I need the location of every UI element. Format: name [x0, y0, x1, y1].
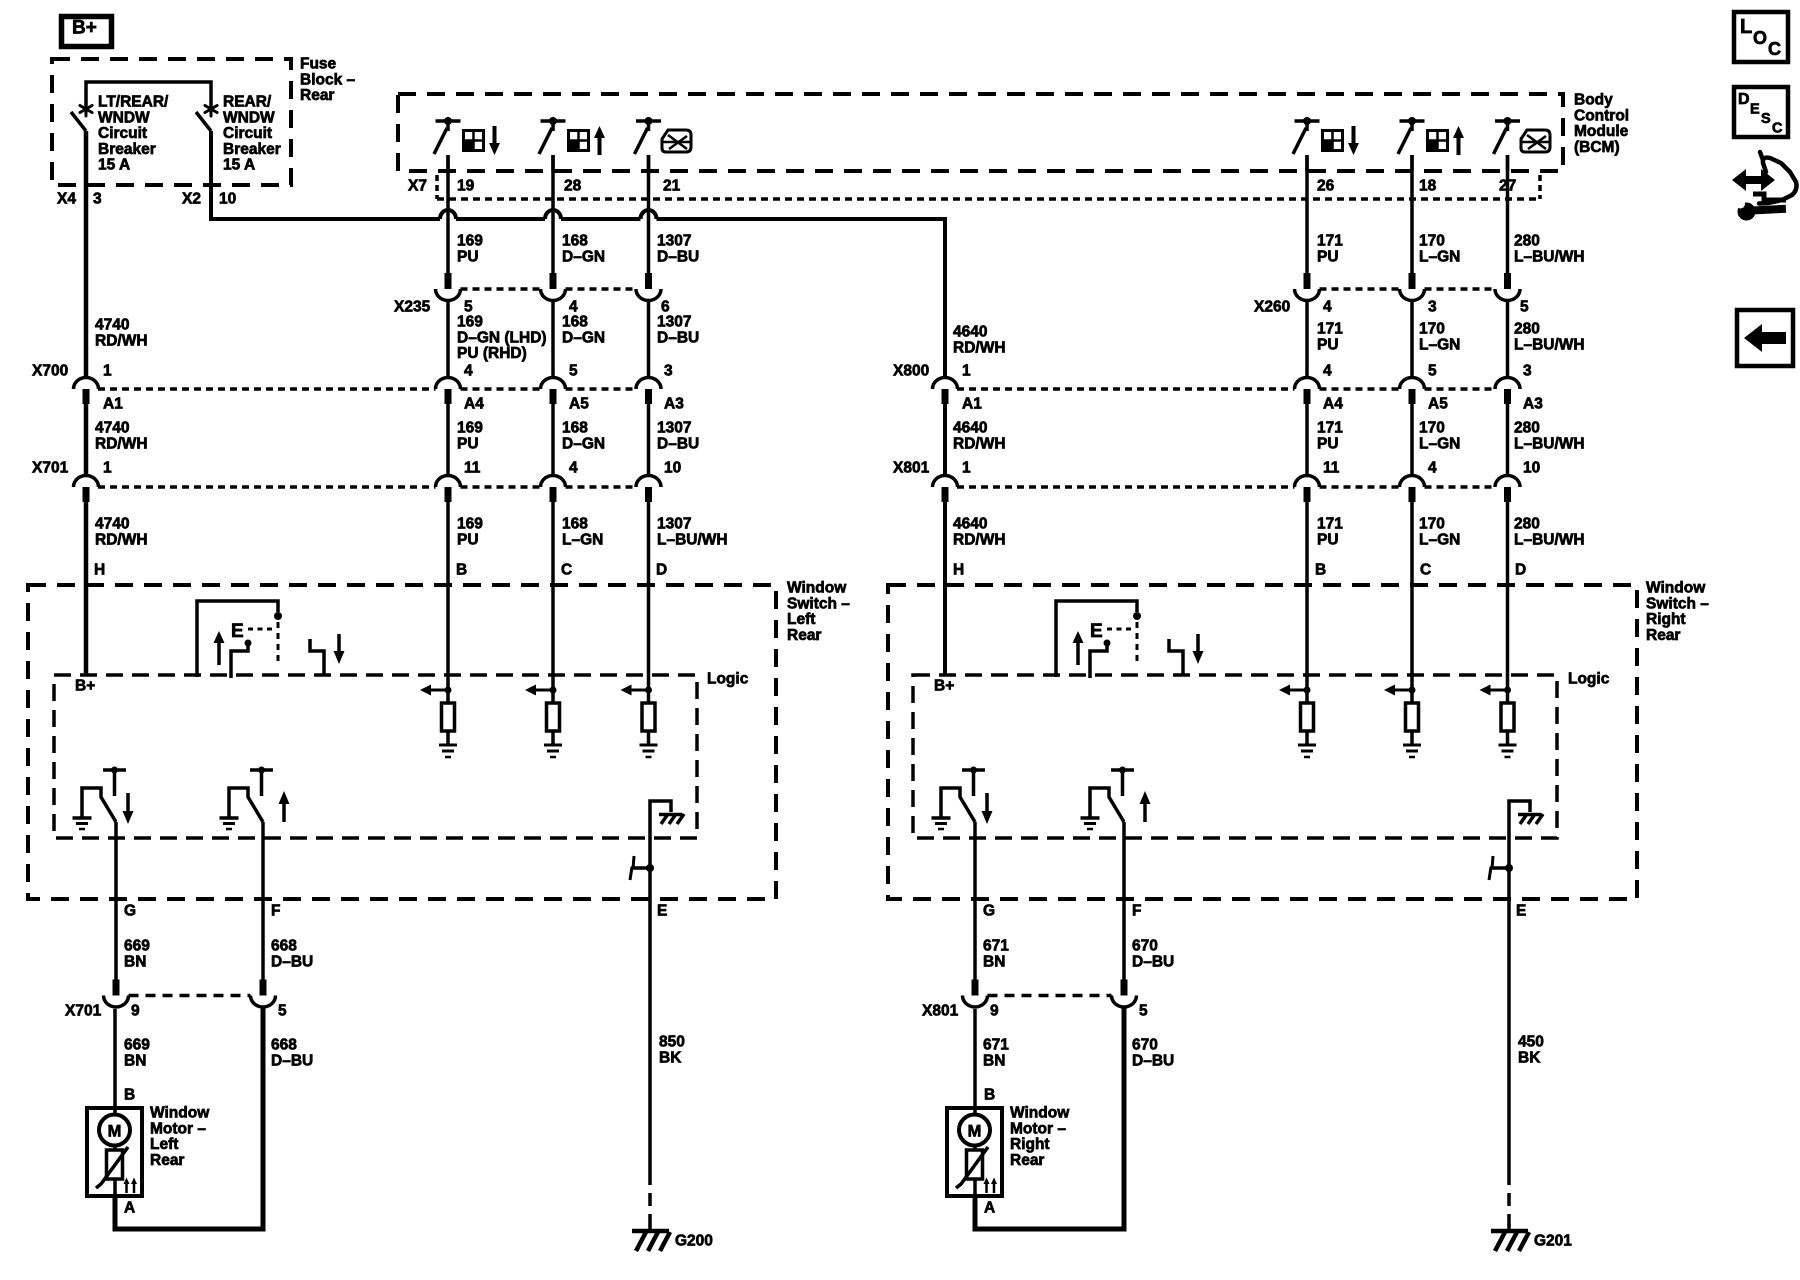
wire C right 170 X800 to X801: [1410, 404, 1414, 476]
connector X800 pin 3: [1495, 378, 1520, 390]
svg-text:E: E: [657, 903, 667, 920]
svg-text:A: A: [984, 1200, 995, 1217]
svg-text:BK: BK: [1518, 1049, 1541, 1066]
svg-text:G: G: [124, 903, 136, 920]
svg-text:15 A: 15 A: [98, 157, 130, 174]
svg-text:170: 170: [1419, 420, 1445, 437]
connector X701 pin 9: [113, 980, 120, 996]
svg-text:A4: A4: [1323, 396, 1343, 413]
svg-text:X260: X260: [1254, 299, 1290, 316]
svg-text:PU: PU: [1317, 336, 1339, 353]
svg-text:Window: Window: [787, 580, 847, 597]
logic box right: [913, 675, 1557, 838]
BCM box: Body Control Module: [398, 94, 1563, 171]
svg-text:169: 169: [457, 314, 483, 331]
svg-text:E: E: [1090, 621, 1103, 642]
svg-text:169: 169: [457, 516, 483, 533]
svg-text:5: 5: [1520, 299, 1529, 316]
wire C right 170 X801 to switch box: [1410, 502, 1414, 675]
svg-text:28: 28: [564, 178, 582, 195]
connector X800 pin 5: [1400, 378, 1425, 390]
svg-text:PU: PU: [1317, 248, 1339, 265]
wire H left (4740 RD/WH) breaker to X700: [84, 131, 89, 378]
svg-text:M: M: [968, 1123, 982, 1141]
svg-text:3: 3: [1523, 363, 1532, 380]
svg-text:PU: PU: [457, 248, 479, 265]
svg-text:19: 19: [457, 178, 475, 195]
svg-text:Rear: Rear: [787, 627, 821, 644]
svg-text:D–GN: D–GN: [562, 329, 605, 346]
svg-text:670: 670: [1132, 938, 1158, 955]
svg-text:PU: PU: [1317, 531, 1339, 548]
svg-text:670: 670: [1132, 1037, 1158, 1054]
svg-text:B+: B+: [75, 678, 95, 695]
resistor R5 w/ ground (right C): [1410, 675, 1414, 703]
wire D left 1307 X700 to X701: [647, 404, 651, 476]
svg-text:171: 171: [1317, 233, 1343, 250]
connector X800 pin 1: [933, 378, 958, 390]
svg-text:L–BU/WH: L–BU/WH: [1514, 336, 1585, 353]
BCM switch S1 window down left: [436, 119, 461, 123]
svg-text:PU: PU: [1317, 435, 1339, 452]
svg-text:Rear: Rear: [150, 1152, 184, 1169]
ground hook E left: [650, 801, 671, 838]
svg-text:B+: B+: [72, 18, 97, 39]
svg-text:Circuit: Circuit: [98, 125, 147, 142]
svg-text:F: F: [1132, 903, 1141, 920]
wire H right (4640 RD/WH) X800 to X801: [943, 404, 947, 476]
svg-text:280: 280: [1514, 516, 1540, 533]
wire E right inside box: [1507, 838, 1511, 899]
svg-text:18: 18: [1419, 178, 1437, 195]
wire G left 669 BN: [114, 822, 118, 980]
svg-text:169: 169: [457, 420, 483, 437]
connector X235 pin 5: [445, 273, 452, 289]
svg-text:10: 10: [219, 191, 236, 208]
svg-text:Left: Left: [787, 611, 815, 628]
svg-text:Rear: Rear: [300, 87, 334, 104]
svg-text:A5: A5: [569, 396, 589, 413]
circuit breaker CB2 REAR/WNDW 15 A: [210, 102, 213, 116]
svg-text:668: 668: [271, 938, 297, 955]
svg-text:280: 280: [1514, 321, 1540, 338]
svg-text:170: 170: [1419, 516, 1445, 533]
svg-text:850: 850: [659, 1034, 685, 1051]
wire B right 171 PU X801 to switch box: [1305, 502, 1309, 675]
svg-text:1: 1: [962, 363, 971, 380]
svg-text:Circuit: Circuit: [223, 125, 272, 142]
svg-text:RD/WH: RD/WH: [953, 339, 1006, 356]
svg-text:D–BU: D–BU: [657, 329, 699, 346]
svg-text:L–BU/WH: L–BU/WH: [657, 531, 728, 548]
connector X260 pin 4: [1304, 273, 1311, 289]
connector X801 pin 4: [1400, 476, 1425, 487]
svg-text:4640: 4640: [953, 516, 987, 533]
wire B right 171 PU X800 to X801: [1305, 404, 1309, 476]
svg-text:PU: PU: [457, 531, 479, 548]
svg-text:L–BU/WH: L–BU/WH: [1514, 435, 1585, 452]
svg-text:H: H: [94, 562, 105, 579]
icon LOC box: [1734, 12, 1788, 62]
svg-text:280: 280: [1514, 420, 1540, 437]
svg-text:D–GN: D–GN: [562, 435, 605, 452]
switch up left (F): [250, 768, 273, 772]
connector X801 bridge dashes: [957, 485, 1295, 489]
wire C left 168 X700 to X701: [551, 404, 555, 476]
svg-text:C: C: [1420, 562, 1431, 579]
svg-text:B: B: [456, 562, 467, 579]
wire B right 171 PU BCM to X260: [1305, 155, 1309, 273]
svg-text:4: 4: [1323, 363, 1332, 380]
connector X801 pin 10: [1495, 476, 1520, 487]
icon express-window right: [1521, 130, 1550, 152]
svg-text:170: 170: [1419, 233, 1445, 250]
svg-text:171: 171: [1317, 420, 1343, 437]
svg-text:X4: X4: [57, 191, 76, 208]
connector X801 pin 5: [1121, 980, 1128, 996]
svg-text:L–BU/WH: L–BU/WH: [1514, 531, 1585, 548]
svg-text:E: E: [1516, 903, 1526, 920]
svg-text:168: 168: [562, 420, 588, 437]
svg-text:15 A: 15 A: [223, 157, 255, 174]
wire motor loop right (A to X801-5): [975, 1008, 1124, 1229]
svg-text:BN: BN: [124, 1052, 146, 1069]
svg-text:Breaker: Breaker: [98, 141, 156, 158]
svg-text:1: 1: [962, 460, 971, 477]
svg-text:L–GN: L–GN: [562, 531, 603, 548]
svg-text:L–GN: L–GN: [1419, 531, 1460, 548]
BCM switch S5 window up right: [1400, 119, 1425, 123]
wire D left 1307 X701 to switch box: [647, 502, 651, 675]
connector X700 pin 5: [541, 378, 566, 390]
svg-text:A5: A5: [1428, 396, 1448, 413]
wire D right 280 BCM to X260: [1506, 155, 1510, 273]
svg-text:WNDW: WNDW: [223, 109, 275, 126]
svg-text:E: E: [1750, 102, 1760, 118]
window switch right rear box: [888, 585, 1637, 899]
svg-text:D–BU: D–BU: [657, 248, 699, 265]
BCM switch S3 express left: [636, 119, 661, 123]
svg-text:BN: BN: [983, 1052, 1005, 1069]
window switch left rear box: [28, 585, 776, 899]
wire D right 280 X801 to switch box: [1506, 502, 1510, 675]
svg-text:Switch –: Switch –: [1646, 595, 1709, 612]
svg-text:BN: BN: [124, 953, 146, 970]
svg-text:RD/WH: RD/WH: [953, 435, 1006, 452]
svg-text:BN: BN: [983, 953, 1005, 970]
svg-text:671: 671: [983, 1037, 1009, 1054]
wire E right 450 BK solid: [1507, 899, 1511, 1172]
svg-text:A3: A3: [664, 396, 684, 413]
resistor R3 w/ ground (left D): [647, 675, 651, 703]
wire D left 1307 BCM to X235: [647, 155, 651, 273]
wire E right dashed to G201: [1507, 1172, 1511, 1226]
wire E left dashed to G200: [648, 1172, 652, 1226]
window motor right rear M2: [947, 1108, 1002, 1196]
wire motor loop left (A to X701-5): [115, 1008, 263, 1229]
svg-text:Rear: Rear: [1010, 1152, 1044, 1169]
wire E left inside box: [648, 838, 652, 899]
relay E assembly right: [1056, 601, 1137, 677]
svg-text:4740: 4740: [95, 420, 129, 437]
logic box left: [54, 675, 697, 838]
svg-text:L–GN: L–GN: [1419, 435, 1460, 452]
svg-text:S: S: [1761, 111, 1771, 127]
svg-text:Right: Right: [1010, 1136, 1050, 1153]
svg-text:5: 5: [278, 1003, 287, 1020]
wire H left X701 to switch box: [84, 502, 89, 675]
window motor left rear M1: [87, 1108, 142, 1196]
svg-text:9: 9: [131, 1003, 140, 1020]
wire B right 171 PU X260 to X800: [1305, 301, 1309, 378]
svg-text:170: 170: [1419, 321, 1445, 338]
svg-text:4640: 4640: [953, 324, 987, 341]
connector X701 pin 10: [636, 476, 661, 487]
svg-text:D: D: [1738, 91, 1750, 108]
svg-text:X701: X701: [32, 460, 69, 477]
ground hook E right: [1509, 801, 1530, 838]
wire C right 170 X260 to X800: [1410, 301, 1414, 378]
icon window-down right: [1323, 131, 1343, 151]
svg-text:L–BU/WH: L–BU/WH: [1514, 248, 1585, 265]
svg-text:Breaker: Breaker: [223, 141, 281, 158]
svg-text:171: 171: [1317, 516, 1343, 533]
fuse block box: Fuse Block - Rear: [52, 59, 291, 185]
resistor R2 w/ ground (left C): [551, 675, 555, 703]
wire D left 1307 X235 to X700: [647, 301, 651, 378]
connector X701 pin 4: [541, 476, 566, 487]
svg-text:Left: Left: [150, 1136, 178, 1153]
ground G201: [1507, 1225, 1511, 1233]
svg-text:G: G: [983, 903, 995, 920]
svg-text:Switch –: Switch –: [787, 595, 850, 612]
wire B left 169 PU BCM to X235: [446, 155, 450, 273]
svg-text:10: 10: [664, 460, 681, 477]
svg-text:X801: X801: [922, 1003, 959, 1020]
wire F right 670 D-BU: [1122, 822, 1126, 980]
clip splice E left: [631, 866, 652, 870]
svg-text:L–GN: L–GN: [1419, 248, 1460, 265]
svg-text:A1: A1: [103, 396, 123, 413]
icon DESC box: [1734, 87, 1788, 137]
svg-text:669: 669: [124, 1037, 150, 1054]
svg-text:4740: 4740: [95, 317, 129, 334]
svg-text:WNDW: WNDW: [98, 109, 150, 126]
svg-text:280: 280: [1514, 233, 1540, 250]
svg-text:1: 1: [103, 460, 112, 477]
svg-text:11: 11: [464, 460, 481, 477]
svg-text:RD/WH: RD/WH: [95, 435, 148, 452]
wire C left 168 X701 to switch box: [551, 502, 555, 675]
svg-text:4640: 4640: [953, 420, 987, 437]
connector X7 row: [435, 175, 439, 199]
clip splice E right: [1490, 866, 1511, 870]
svg-text:Logic: Logic: [707, 671, 749, 688]
svg-text:1307: 1307: [657, 420, 691, 437]
svg-text:C: C: [561, 562, 572, 579]
svg-text:D–BU: D–BU: [657, 435, 699, 452]
svg-text:C: C: [1772, 121, 1783, 137]
svg-text:Body: Body: [1574, 92, 1613, 109]
connector X701 bottom bridge dashes: [129, 994, 251, 998]
svg-text:Rear: Rear: [1646, 627, 1680, 644]
connector X701 bridge dashes: [98, 485, 436, 489]
svg-text:PU: PU: [457, 435, 479, 452]
svg-text:168: 168: [562, 233, 588, 250]
svg-text:D–GN (LHD): D–GN (LHD): [457, 329, 547, 346]
switch up right (F): [1111, 768, 1134, 772]
wire B left 169 PU X235 to X700: [446, 301, 450, 378]
svg-text:D–GN: D–GN: [562, 248, 605, 265]
svg-text:4: 4: [464, 363, 473, 380]
wire bus from X2-10 to right window switch feed (with hops): [211, 131, 440, 219]
svg-text:4: 4: [1323, 299, 1332, 316]
connector X260 bridge dashes: [1320, 287, 1401, 291]
connector X700 pin 3: [636, 378, 661, 390]
svg-text:RD/WH: RD/WH: [953, 531, 1006, 548]
wire H left X700 to X701: [84, 404, 89, 476]
svg-text:3: 3: [93, 191, 102, 208]
svg-text:1307: 1307: [657, 233, 691, 250]
svg-text:F: F: [271, 903, 280, 920]
svg-text:671: 671: [983, 938, 1009, 955]
svg-text:X800: X800: [893, 363, 929, 380]
svg-text:X700: X700: [32, 363, 68, 380]
connector X800 pin 4: [1295, 378, 1320, 390]
svg-text:26: 26: [1317, 178, 1335, 195]
svg-text:L–GN: L–GN: [1419, 336, 1460, 353]
svg-text:5: 5: [569, 363, 578, 380]
svg-text:11: 11: [1323, 460, 1340, 477]
svg-text:B+: B+: [934, 678, 954, 695]
svg-text:669: 669: [124, 938, 150, 955]
svg-text:L: L: [1740, 16, 1752, 38]
ground G200: [648, 1225, 652, 1233]
wire B left 169 PU X701 to switch box: [446, 502, 450, 675]
svg-text:G200: G200: [675, 1233, 713, 1250]
connector X260 pin 5: [1504, 273, 1511, 289]
wire fuse block internal bus: [86, 82, 211, 106]
wire C left 168 X235 to X700: [551, 301, 555, 378]
wire G right 671 BN: [973, 822, 977, 980]
connector X700 pin 4: [436, 378, 461, 390]
svg-text:1: 1: [103, 363, 112, 380]
connector X801 pin 1: [933, 476, 958, 487]
svg-text:Logic: Logic: [1568, 671, 1610, 688]
svg-text:3: 3: [1428, 299, 1437, 316]
resistor R4 w/ ground (right B): [1305, 675, 1309, 703]
svg-text:B: B: [984, 1087, 995, 1104]
svg-text:21: 21: [663, 178, 681, 195]
svg-text:168: 168: [562, 314, 588, 331]
svg-text:Module: Module: [1574, 123, 1629, 140]
svg-text:X235: X235: [394, 299, 431, 316]
svg-text:D: D: [656, 562, 667, 579]
svg-text:H: H: [953, 562, 964, 579]
svg-text:Control: Control: [1574, 107, 1629, 124]
svg-text:1307: 1307: [657, 314, 691, 331]
connector X235 pin 6: [645, 273, 652, 289]
svg-text:5: 5: [1428, 363, 1437, 380]
svg-text:BK: BK: [659, 1049, 682, 1066]
svg-text:D: D: [1515, 562, 1526, 579]
relay E assembly left: [197, 601, 278, 677]
resistor R6 w/ ground (right D): [1506, 675, 1510, 703]
connector X235 pin 4: [550, 273, 557, 289]
svg-text:Window: Window: [1010, 1105, 1070, 1122]
svg-text:168: 168: [562, 516, 588, 533]
svg-text:A1: A1: [962, 396, 982, 413]
svg-text:Window: Window: [1646, 580, 1706, 597]
svg-text:G201: G201: [1534, 1233, 1572, 1250]
icon window-down left: [464, 131, 484, 151]
svg-text:169: 169: [457, 233, 483, 250]
svg-text:4740: 4740: [95, 516, 129, 533]
svg-text:10: 10: [1523, 460, 1540, 477]
svg-text:PU (RHD): PU (RHD): [457, 345, 527, 362]
svg-text:RD/WH: RD/WH: [95, 332, 148, 349]
svg-text:B: B: [1315, 562, 1326, 579]
svg-text:3: 3: [664, 363, 673, 380]
icon back arrow box: [1737, 310, 1793, 366]
connector X235 bridge dashes: [461, 287, 542, 291]
svg-text:Motor –: Motor –: [1010, 1120, 1066, 1137]
wire C left 168 BCM to X235: [551, 155, 555, 273]
svg-text:A4: A4: [464, 396, 484, 413]
icon wiring navigation (double arrow + wrench): [1732, 169, 1775, 191]
BCM switch S6 express right: [1495, 119, 1520, 123]
svg-text:RD/WH: RD/WH: [95, 531, 148, 548]
connector X800 bridge dashes: [957, 387, 1295, 391]
connector X701 pin 1: [74, 476, 99, 487]
icon window-up right: [1428, 131, 1448, 151]
switch down left (G): [103, 768, 126, 772]
svg-text:LT/REAR/: LT/REAR/: [98, 94, 169, 111]
svg-text:Window: Window: [150, 1105, 210, 1122]
svg-text:(BCM): (BCM): [1574, 139, 1620, 156]
svg-text:D–BU: D–BU: [1132, 953, 1174, 970]
connector X260 pin 3: [1409, 273, 1416, 289]
svg-text:1307: 1307: [657, 516, 691, 533]
svg-text:M: M: [108, 1123, 122, 1141]
node B+ power symbol: [62, 17, 112, 47]
svg-text:171: 171: [1317, 321, 1343, 338]
svg-text:4: 4: [1428, 460, 1437, 477]
BCM switch S4 window down right: [1295, 119, 1320, 123]
svg-text:Block –: Block –: [300, 71, 356, 88]
switch down right (G): [962, 768, 985, 772]
wire H right X801 to switch box: [943, 502, 947, 675]
svg-text:A3: A3: [1523, 396, 1543, 413]
wire C right 170 BCM to X260: [1410, 155, 1414, 273]
svg-text:X7: X7: [408, 178, 427, 195]
svg-text:X2: X2: [182, 191, 201, 208]
wire E left 850 BK solid: [648, 899, 652, 1172]
svg-text:Fuse: Fuse: [300, 56, 337, 73]
wire F left 668 D-BU: [261, 822, 265, 980]
svg-text:A: A: [124, 1200, 135, 1217]
svg-text:4: 4: [569, 460, 578, 477]
svg-text:X701: X701: [65, 1003, 102, 1020]
svg-text:O: O: [1753, 28, 1767, 48]
connector X700 bridge dashes: [98, 387, 436, 391]
connector X801 pin 9: [972, 980, 979, 996]
BCM switch S2 window up left: [541, 119, 566, 123]
icon express-window left: [662, 130, 691, 152]
connector X801 pin 11: [1295, 476, 1320, 487]
svg-text:668: 668: [271, 1037, 297, 1054]
wire B left 169 PU X700 to X701: [446, 404, 450, 476]
